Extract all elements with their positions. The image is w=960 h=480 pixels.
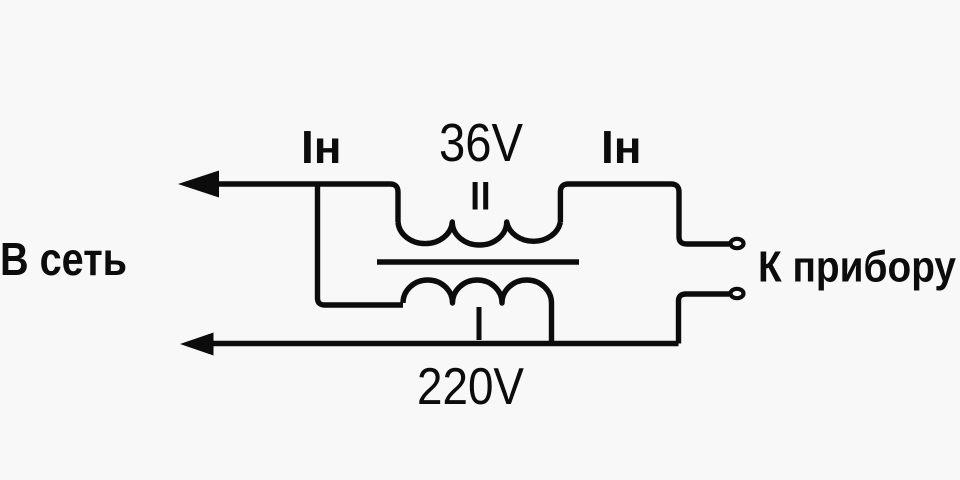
wire bottom mains line (lower)	[205, 341, 679, 346]
terminal upper (to device)	[731, 239, 744, 248]
winding mark II (secondary)	[473, 182, 489, 210]
svg-text:Iн: Iн	[301, 121, 342, 173]
svg-text:36V: 36V	[439, 113, 523, 173]
winding mark I (primary)	[477, 307, 482, 340]
svg-text:220V: 220V	[417, 358, 524, 416]
svg-text:К прибору: К прибору	[758, 243, 956, 292]
wire top mains line (upper)	[205, 184, 398, 222]
svg-text:В сеть: В сеть	[0, 233, 127, 285]
transformer primary winding I (220V) with right lead down	[403, 280, 552, 344]
wire from secondary winding up and right to upper terminal	[560, 184, 729, 244]
wire junction vertical from node A down to primary lead	[318, 184, 404, 305]
arrow to mains (upper)	[178, 171, 219, 198]
wire from lower terminal down to bottom mains line	[679, 294, 730, 344]
arrow to mains (lower)	[180, 333, 214, 356]
transformer core	[377, 259, 579, 265]
terminal lower (to device)	[731, 289, 744, 298]
transformer secondary winding II (36V)	[398, 222, 560, 245]
svg-text:Iн: Iн	[601, 121, 642, 173]
